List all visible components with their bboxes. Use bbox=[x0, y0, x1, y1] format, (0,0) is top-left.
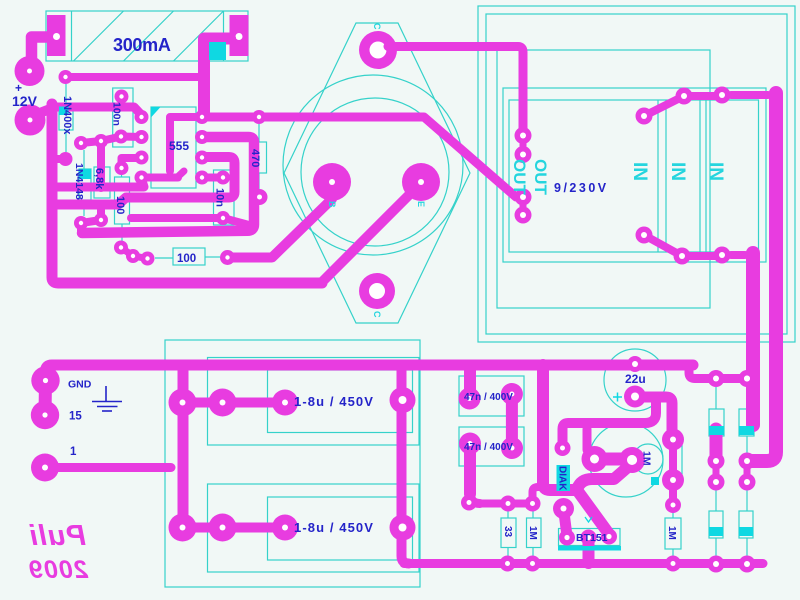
pads transformer IN bottom bbox=[636, 227, 731, 265]
wire x543 vertical to BT151 gate diagonal bbox=[543, 365, 609, 534]
resistor R2 6,8k outline bbox=[94, 167, 110, 198]
pads thyristor Q2 BT151 bbox=[559, 529, 617, 564]
svg-text:100: 100 bbox=[114, 196, 126, 214]
IC U1 555 pads left column bbox=[135, 110, 149, 185]
svg-text:1M: 1M bbox=[641, 451, 653, 466]
pads diode D2 bottom chain bbox=[739, 453, 756, 491]
wire C3 left pad to band bbox=[464, 369, 476, 398]
pad hole refresh trimmer wiper bbox=[627, 455, 637, 465]
wire horizontal rail y107 bbox=[52, 107, 142, 115]
capacitor C6 1-8u/450V outline bbox=[208, 484, 420, 572]
wire mounting pad C to OUT pad1 bbox=[388, 47, 523, 132]
svg-text:IN: IN bbox=[705, 162, 726, 181]
diode D2 cathode band bbox=[739, 426, 754, 435]
pad transistor Q1 base B bbox=[313, 163, 351, 201]
svg-text:1-8u / 450V: 1-8u / 450V bbox=[294, 520, 374, 535]
pad diode D1 top bbox=[708, 370, 725, 387]
transformer TR1 outline bbox=[478, 6, 795, 342]
svg-text:GND: GND bbox=[68, 379, 92, 391]
pads capacitor C3 47n bbox=[459, 383, 523, 410]
resistor R5 100 horizontal outline and leads bbox=[155, 248, 220, 265]
pad node A3 bbox=[126, 249, 140, 263]
pad capacitor C6 right bbox=[390, 515, 416, 541]
fuse F1 pad left bbox=[47, 15, 66, 56]
svg-text:1M: 1M bbox=[666, 526, 677, 540]
thyristor Q2 pin marker bbox=[585, 517, 592, 522]
svg-text:2009: 2009 bbox=[28, 556, 89, 584]
svg-text:100n: 100n bbox=[111, 102, 123, 126]
svg-text:300mA: 300mA bbox=[113, 35, 171, 55]
wire y504 horizontal bbox=[474, 500, 533, 508]
IC U1 pin1 triangle bbox=[151, 107, 161, 118]
svg-text:E: E bbox=[416, 201, 426, 207]
wire R5 right pad to base B diagonal bbox=[228, 199, 333, 258]
pad diode D5 top bbox=[59, 70, 73, 84]
svg-text:IN: IN bbox=[667, 162, 688, 181]
resistor R3 100 vertical outline and leads bbox=[115, 172, 130, 241]
capacitor C1 100n outline bbox=[113, 88, 133, 147]
diode D5 1N400x outline and leads bbox=[59, 84, 73, 152]
svg-text:47n / 400V: 47n / 400V bbox=[464, 392, 513, 403]
pad diode D5 bottom bbox=[59, 152, 73, 166]
pad DIAK bottom bbox=[553, 498, 574, 519]
wire C3 right pad down to C4 right pad bbox=[506, 394, 518, 448]
pad node A1 bbox=[74, 216, 88, 230]
svg-text:IN: IN bbox=[629, 162, 650, 181]
wire big caps left pads row 1 bbox=[183, 398, 286, 408]
wire C4 left pad down to y504 bbox=[464, 444, 476, 495]
svg-text:555: 555 bbox=[169, 139, 189, 153]
diode D4 outline and leads bbox=[739, 490, 753, 556]
wire IN top to right vertical x781 down to diode D2 bbox=[731, 91, 768, 99]
pads trimmer P1 right terminals bbox=[662, 429, 684, 506]
wire bottom rail y564 bbox=[404, 559, 763, 568]
pad resistor R5 left bbox=[141, 252, 155, 266]
pad transistor Q1 mounting top C bbox=[359, 31, 397, 69]
wire band branch to diode top pads bbox=[689, 365, 747, 379]
svg-text:B: B bbox=[327, 201, 337, 208]
pads transformer OUT winding 1 bbox=[515, 127, 532, 163]
wire fuse right pad down to 555 pin R1 bbox=[204, 39, 230, 115]
diode D3 outline and leads bbox=[709, 490, 723, 556]
pad capacitor C2 10n bottom bbox=[216, 211, 230, 225]
capacitor C7 plus mark bbox=[613, 393, 622, 402]
pads transformer IN top bbox=[636, 87, 731, 125]
wire 22u plus pad to trimmer right pads bbox=[640, 397, 672, 437]
pad transistor Q1 mounting bottom C bbox=[359, 273, 395, 309]
wire pad to band3 stub bbox=[77, 223, 85, 233]
svg-text:OUT: OUT bbox=[531, 159, 550, 196]
capacitor C5 1-8u/450V outer outline bbox=[165, 340, 420, 587]
wire 555 R1 long trace to OUT pad3 bbox=[204, 117, 516, 197]
wire x401 vertical from band to rail bbox=[402, 365, 410, 564]
wire 555 R4 to 10n top bbox=[202, 174, 223, 182]
IC U1 555 outline bbox=[151, 107, 196, 188]
pad capacitor C2 10n top bbox=[216, 171, 230, 185]
diode D1 cathode band bbox=[709, 426, 724, 435]
svg-text:Puli: Puli bbox=[29, 520, 86, 552]
pad hole refresh diode D2 top bbox=[744, 376, 750, 382]
svg-text:100: 100 bbox=[177, 253, 196, 265]
resistor R7 1M outline and leads bbox=[527, 510, 542, 557]
wire diode D1 fat lead down bbox=[710, 429, 723, 461]
DIAK body bbox=[557, 465, 571, 491]
capacitor C2 10n outline bbox=[214, 170, 235, 225]
svg-text:22u: 22u bbox=[625, 372, 646, 386]
svg-text:1M: 1M bbox=[527, 526, 538, 540]
pad capacitor C1 100n top bbox=[115, 90, 129, 104]
diode D6 1N4148 outline and leads bbox=[79, 150, 91, 216]
resistor R6 33 outline and leads bbox=[501, 510, 516, 557]
svg-text:470: 470 bbox=[249, 149, 261, 167]
pads capacitor C5 left group bbox=[169, 389, 299, 417]
diode D1 outline and leads bbox=[709, 387, 724, 436]
pad hole refresh R7 top bbox=[530, 501, 535, 506]
pads capacitor C6 left group bbox=[169, 514, 299, 542]
pad 12V input bbox=[15, 105, 46, 136]
pad resistor R7 top bbox=[525, 496, 541, 512]
svg-text:OUT: OUT bbox=[510, 159, 529, 196]
wire trimmer bar bbox=[595, 453, 631, 466]
pad 470 bottom bbox=[252, 189, 268, 205]
pad node A6 bbox=[94, 134, 108, 148]
pad diode D2 top bbox=[739, 370, 756, 387]
resistor R8 1M outline and leads bbox=[665, 511, 681, 557]
capacitor C4 47n/400V outline bbox=[459, 427, 524, 466]
thyristor Q2 heatsink bar bbox=[558, 546, 621, 551]
svg-text:C: C bbox=[372, 311, 382, 318]
wire GND band y365 bbox=[46, 365, 694, 378]
pad terminal 1 bbox=[31, 454, 59, 482]
pad node A5 bbox=[74, 136, 88, 150]
pad capacitor C1 100n bottom bbox=[114, 130, 128, 144]
svg-text:10n: 10n bbox=[214, 188, 226, 207]
wire trimmer left pad up to y424 bbox=[587, 429, 594, 458]
wire pads chain near 1N4148 bottom bbox=[81, 209, 101, 223]
trimmer P1 1M outline bbox=[589, 423, 682, 497]
pad resistor R6 top bbox=[500, 496, 516, 512]
wire left vertical rail x52 bbox=[52, 104, 322, 283]
wire band1 y187 to 555 L4 bbox=[52, 179, 144, 187]
pad capacitor C7 22u top bbox=[627, 356, 643, 372]
wire R7 top pad up to x543 net bbox=[533, 487, 544, 503]
wire 100-v top pad elbow to 555 L3 bbox=[122, 158, 143, 168]
svg-text:C: C bbox=[372, 23, 382, 30]
IC U1 555 pads right column bbox=[195, 110, 209, 185]
wire 12V pad stub bbox=[32, 109, 50, 116]
ground symbol bbox=[92, 386, 122, 411]
pad resistor R4 470 top bbox=[252, 110, 266, 124]
thyristor Q2 BT151 outline bbox=[559, 529, 621, 546]
wire y479 trimmer wiper to x543 bbox=[577, 466, 629, 489]
pads GND bbox=[31, 366, 60, 429]
svg-text:47n / 400V: 47n / 400V bbox=[464, 442, 513, 453]
svg-text:1N4148: 1N4148 bbox=[73, 163, 85, 200]
svg-text:15: 15 bbox=[69, 411, 82, 423]
wire pad pair to 6.8k top bbox=[81, 137, 121, 144]
wire C4 corner into y503 line bbox=[470, 492, 480, 504]
resistor R4 470 outline and leads bbox=[253, 124, 267, 189]
svg-text:1N400x: 1N400x bbox=[61, 96, 73, 135]
wire band2 y204 from 555 R3 bbox=[52, 157, 235, 205]
pad DIAK top bbox=[555, 440, 571, 456]
fuse F1 outline bbox=[46, 11, 248, 61]
pads trimmer P1 left and wiper bbox=[582, 446, 646, 473]
node marker square near trimmer bbox=[651, 477, 659, 485]
wire 555 internal bar bbox=[170, 117, 204, 171]
svg-text:BT151: BT151 bbox=[576, 532, 608, 544]
diode D5 cathode band bbox=[59, 107, 69, 116]
pad resistor R5 right bbox=[220, 250, 235, 265]
wire 10n bottom horizontal y218 bbox=[131, 214, 223, 222]
svg-text:1: 1 bbox=[70, 446, 77, 458]
wire H1 y77 pad to fuse vertical bbox=[66, 73, 205, 81]
diode D2 outline and leads bbox=[739, 387, 754, 453]
wire fuse left pad to 12V+ pad bbox=[32, 37, 49, 63]
wire IN bottom to band via x762 bbox=[731, 251, 745, 259]
capacitor C5 1-8u/450V outline bbox=[208, 358, 420, 446]
pads on bottom rail bbox=[500, 556, 756, 573]
diode D3 cathode band bbox=[709, 527, 723, 536]
wire chain 100-v bottom pads bbox=[121, 248, 148, 259]
wire DIAK bottom to BT151 cathode pad bbox=[564, 509, 568, 537]
svg-text:33: 33 bbox=[502, 526, 513, 538]
wire 555 R2 to 470 vertical to band3 bbox=[82, 137, 254, 233]
svg-text:1-8u / 450V: 1-8u / 450V bbox=[294, 394, 374, 409]
pads capacitor C4 47n bbox=[459, 433, 523, 460]
pad node A2 bbox=[94, 213, 108, 227]
pad transistor Q1 emitter E bbox=[402, 163, 440, 201]
capacitor C3 47n/400V outline bbox=[459, 376, 524, 416]
pad resistor R3 bottom bbox=[114, 241, 128, 255]
wire 555 L4 under chip bbox=[142, 174, 178, 182]
svg-text:12V: 12V bbox=[12, 93, 38, 109]
fuse clip mark bbox=[209, 42, 226, 60]
wire terminal 1 stub bbox=[45, 463, 171, 472]
pad node A4 bbox=[461, 495, 477, 511]
svg-text:DIAK: DIAK bbox=[557, 466, 568, 491]
wire big caps left pads row 2 bbox=[183, 523, 286, 533]
pads transformer OUT winding 2 bbox=[515, 189, 532, 224]
wire IN winding bottom row bbox=[644, 235, 717, 256]
wire DIAK top to 22u net bbox=[563, 399, 657, 448]
svg-text:6,8k: 6,8k bbox=[93, 168, 105, 190]
pad capacitor C5 right bbox=[390, 387, 416, 413]
wire emitter E diagonal bbox=[322, 183, 421, 282]
diode D6 cathode band bbox=[79, 169, 91, 179]
pad 12V+ top bbox=[15, 56, 45, 86]
diode D4 cathode band bbox=[739, 527, 753, 536]
wire 6,8k vertical bbox=[97, 141, 105, 188]
fuse F1 pad right bbox=[230, 15, 249, 56]
svg-text:9/230V: 9/230V bbox=[554, 181, 609, 195]
pads diode D1 bottom chain bbox=[708, 453, 725, 491]
wire IN winding top row bbox=[644, 96, 717, 116]
wire big caps vertical x183 bbox=[178, 365, 189, 528]
pad capacitor C7 22u plus bbox=[624, 386, 646, 408]
wire 10n bottom stub to 470 vertical bbox=[223, 218, 249, 225]
pad resistor R8 top bbox=[665, 497, 681, 513]
transistor Q1 TO-3 outline bbox=[283, 23, 470, 323]
pad resistor R3 top bbox=[115, 161, 129, 175]
wire D5 bottom stub to left rail bbox=[54, 155, 66, 163]
wire 100n bottom to 555 L2 bbox=[121, 133, 142, 142]
capacitor C7 22u outline bbox=[604, 349, 666, 411]
